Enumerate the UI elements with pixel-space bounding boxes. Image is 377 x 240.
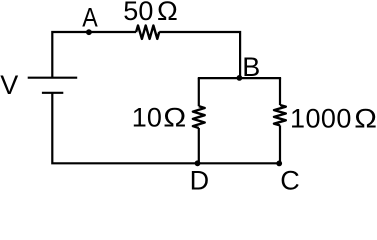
svg-text:50Ω: 50Ω — [123, 0, 178, 26]
svg-text:A: A — [82, 3, 98, 33]
svg-text:B: B — [242, 52, 260, 82]
svg-text:1000Ω: 1000Ω — [290, 104, 377, 134]
svg-text:V: V — [0, 70, 18, 100]
svg-text:D: D — [190, 165, 210, 190]
svg-text:10Ω: 10Ω — [132, 102, 186, 132]
svg-text:C: C — [280, 166, 300, 190]
